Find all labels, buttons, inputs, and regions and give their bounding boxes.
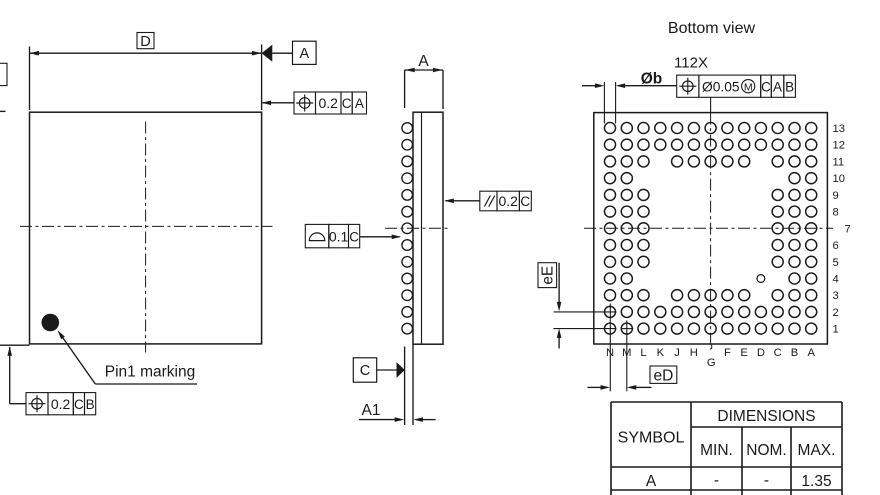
fcf parallelism 0.2 C : arrow <box>446 200 480 202</box>
dimension A line <box>405 69 443 71</box>
small ball D4 <box>757 275 765 283</box>
bottom view vertical centerline <box>710 113 712 350</box>
svg-text:C: C <box>761 79 771 94</box>
svg-text:4: 4 <box>833 273 839 285</box>
svg-text:0.2: 0.2 <box>318 95 338 111</box>
svg-text:112X: 112X <box>674 55 708 72</box>
fcf position 0.2 C A : leader arrow <box>263 102 295 104</box>
cut-off frame at left edge <box>0 63 7 85</box>
side view ball column <box>402 123 413 134</box>
svg-text:A: A <box>773 79 782 94</box>
dimension eD extension lines <box>609 304 611 392</box>
svg-text:3: 3 <box>833 290 839 302</box>
fcf position 0.2 C B : extension line <box>0 344 30 346</box>
svg-text:0.2: 0.2 <box>498 193 518 209</box>
svg-text:0.1: 0.1 <box>329 228 349 244</box>
svg-text:1: 1 <box>833 324 839 336</box>
svg-text:G: G <box>707 357 716 369</box>
datum A flag triangle <box>262 45 273 62</box>
svg-text:9: 9 <box>833 190 839 202</box>
svg-text:eE: eE <box>540 266 557 285</box>
svg-text:6: 6 <box>833 240 839 252</box>
svg-text:A: A <box>355 96 364 111</box>
svg-text:C: C <box>360 363 370 379</box>
svg-text:12: 12 <box>833 140 845 152</box>
svg-text:L: L <box>640 347 646 359</box>
dimension eE label box (rotated) <box>538 263 557 288</box>
svg-text:MAX.: MAX. <box>798 442 836 459</box>
svg-text:7: 7 <box>845 223 851 235</box>
dimension D line <box>30 52 262 54</box>
top view horizontal centerline <box>20 225 273 227</box>
fcf position 0.2 C B : leader <box>7 346 12 356</box>
svg-text:D: D <box>757 347 765 359</box>
svg-text:C: C <box>520 194 530 209</box>
svg-text:M: M <box>744 82 753 94</box>
svg-text:Bottom view: Bottom view <box>668 20 756 37</box>
left edge tick <box>0 110 6 112</box>
fcf leader to array <box>710 97 712 112</box>
svg-text:A: A <box>646 473 657 490</box>
dimension eD line and arrows <box>588 386 602 388</box>
svg-text:D: D <box>140 34 150 50</box>
svg-text:8: 8 <box>833 207 839 219</box>
fcf position 0.2 C B : frame <box>26 393 48 415</box>
side view horizontal centerline <box>385 227 451 229</box>
svg-text:B: B <box>86 397 95 412</box>
fcf profile 0.1 C : frame <box>305 224 329 247</box>
fcf position 0.2 C A : frame <box>294 92 316 114</box>
svg-text:C: C <box>774 347 782 359</box>
svg-text:DIMENSIONS: DIMENSIONS <box>717 408 815 425</box>
svg-text:eD: eD <box>653 367 673 384</box>
svg-text:C: C <box>349 229 359 244</box>
datum A box <box>293 41 317 64</box>
svg-text:Ø0.05: Ø0.05 <box>702 79 740 94</box>
dimension Øb leader and arrows <box>582 85 596 87</box>
dimension Øb extension lines <box>603 82 605 124</box>
ball grid <box>604 122 615 133</box>
svg-text:A1: A1 <box>362 402 381 419</box>
svg-text:1.35: 1.35 <box>801 473 831 490</box>
svg-text:B: B <box>791 347 798 359</box>
fcf position Ø0.05 M C A B : frame <box>677 75 699 97</box>
svg-text:-: - <box>714 472 719 489</box>
dimension eE line and arrows <box>558 263 560 303</box>
pin1 marking leader <box>58 330 65 339</box>
svg-text:J: J <box>674 347 680 359</box>
top view vertical centerline <box>145 122 147 353</box>
svg-text:H: H <box>690 347 698 359</box>
svg-text:SYMBOL: SYMBOL <box>618 430 685 447</box>
svg-text:Pin1 marking: Pin1 marking <box>105 364 195 381</box>
dimensions table <box>610 402 612 495</box>
svg-text:0.2: 0.2 <box>51 396 71 412</box>
svg-text:A: A <box>418 53 429 70</box>
svg-text:A: A <box>808 347 816 359</box>
dimension A extension lines <box>404 70 406 108</box>
fcf profile 0.1 C : arrow <box>360 236 400 238</box>
dimension D label box <box>137 33 154 49</box>
svg-text:NOM.: NOM. <box>746 442 786 459</box>
svg-text:C: C <box>74 397 84 412</box>
svg-text:E: E <box>740 347 747 359</box>
dimension eD label box <box>650 366 677 383</box>
top view package outline <box>30 112 262 344</box>
svg-text:Øb: Øb <box>641 71 663 88</box>
side view body <box>413 112 443 344</box>
dimension eE extension lines <box>554 311 617 313</box>
datum C box <box>353 358 376 382</box>
side view substrate line <box>421 112 423 344</box>
dimension A1 arrows <box>359 419 396 421</box>
pin1 marking dot <box>42 314 60 332</box>
dimension A1 extension lines <box>404 347 406 426</box>
dimension D extension lines <box>29 47 31 111</box>
svg-text:C: C <box>342 96 352 111</box>
fcf parallelism 0.2 C : frame <box>480 191 497 211</box>
svg-text:MIN.: MIN. <box>700 442 733 459</box>
crosshair tick through ball M1 <box>621 328 633 330</box>
svg-text:-: - <box>764 472 769 489</box>
svg-text:K: K <box>657 347 665 359</box>
svg-text:2: 2 <box>833 307 839 319</box>
svg-text:10: 10 <box>833 173 845 185</box>
svg-text:F: F <box>724 347 731 359</box>
datum C flag triangle <box>377 369 398 371</box>
bottom view horizontal centerline <box>584 227 833 229</box>
svg-text:B: B <box>785 79 794 94</box>
column G leader <box>711 344 713 349</box>
svg-text:5: 5 <box>833 257 839 269</box>
svg-text:A: A <box>299 46 309 62</box>
bottom view package outline <box>594 113 828 344</box>
svg-text:13: 13 <box>833 123 845 135</box>
svg-text:11: 11 <box>833 156 845 168</box>
